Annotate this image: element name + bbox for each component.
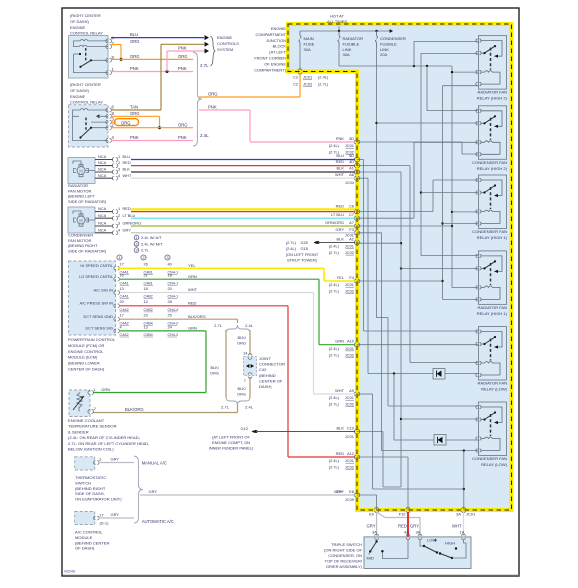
wire: R5 pin4 through diode D1 — [367, 178, 369, 373]
wire: radiator fan motor pin 1 BLU — [95, 159, 113, 161]
svg-text:GRY: GRY — [336, 227, 345, 232]
svg-text:GRN: GRN — [188, 274, 197, 279]
svg-text:ENGINE: ENGINE — [271, 26, 286, 31]
wire: ORG pin8 to brace — [111, 58, 193, 60]
node: junction block entry E8 (GRY) — [354, 493, 360, 497]
svg-text:JC09: JC09 — [345, 497, 354, 502]
wire: R1 pin2 down — [421, 52, 479, 54]
svg-text:A/C SIG IN: A/C SIG IN — [94, 287, 114, 292]
svg-text:(2.4L): (2.4L) — [318, 75, 329, 80]
svg-text:ECT SENS SIG: ECT SENS SIG — [86, 326, 114, 331]
svg-text:17: 17 — [120, 313, 124, 318]
svg-text:RED: RED — [188, 300, 197, 305]
svg-text:CENTER OF: CENTER OF — [259, 378, 283, 383]
motor: condenser fan motor — [68, 207, 95, 233]
svg-text:ALL TIMES: ALL TIMES — [327, 19, 347, 24]
svg-text:2: 2 — [118, 160, 120, 165]
svg-text:F3: F3 — [349, 227, 354, 232]
connector C2 JC01/JC02 — [298, 69, 302, 75]
svg-text:13: 13 — [120, 286, 124, 291]
svg-text:MID: MID — [367, 556, 374, 561]
svg-text:YEL: YEL — [188, 263, 196, 268]
svg-text:JC01: JC01 — [345, 346, 354, 351]
ground G20/G15 — [314, 241, 317, 244]
relay: CONDENSER FAN RELAY (HIGH 1) — [472, 175, 508, 240]
svg-text:25: 25 — [168, 313, 172, 318]
wire: PNK riser to arrow — [166, 51, 168, 72]
svg-text:A10: A10 — [347, 339, 355, 344]
svg-text:(2.4L): (2.4L) — [329, 458, 340, 463]
svg-text:BLU: BLU — [123, 154, 131, 159]
svg-text:LINK: LINK — [380, 47, 389, 52]
wire: ORG pin3 highlighted — [111, 121, 116, 123]
wire: GRY merged to E8 — [140, 494, 355, 496]
svg-text:JC01: JC01 — [345, 244, 354, 249]
wire: R3 pin2 — [421, 192, 479, 194]
svg-text:SWITCH: SWITCH — [75, 480, 91, 485]
svg-text:2.4L: 2.4L — [245, 323, 254, 328]
wire: condenser feed jog — [377, 317, 389, 319]
svg-text:2.7L: 2.7L — [200, 63, 209, 68]
svg-text:3: 3 — [118, 221, 120, 226]
node: relay output merge brace — [193, 52, 202, 146]
svg-text:(BEHIND LOWER: (BEHIND LOWER — [68, 361, 100, 366]
svg-text:2: 2 — [94, 406, 96, 411]
node: bottom exit 3A JC01 (WHT) — [462, 507, 466, 513]
svg-text:ENGINE COOLANT: ENGINE COOLANT — [68, 418, 105, 423]
svg-text:CONDENSER, ON: CONDENSER, ON — [328, 553, 362, 558]
svg-text:(2.7L): (2.7L) — [329, 352, 340, 357]
svg-text:MODULE (PCM) OR: MODULE (PCM) OR — [68, 343, 104, 348]
wire: R6 pin2 from ground bus — [401, 418, 479, 420]
svg-text:1: 1 — [135, 236, 137, 240]
wire: BLK/ORG 2.7L branch — [225, 330, 227, 398]
ground G12 — [252, 430, 255, 433]
svg-text:RED: RED — [336, 203, 344, 208]
svg-text:CONDENSER: CONDENSER — [68, 233, 93, 238]
svg-text:THERMOSTATIC: THERMOSTATIC — [75, 475, 106, 480]
wire: R3 pin4 — [443, 223, 479, 225]
svg-text:(2.7L): (2.7L) — [318, 82, 329, 87]
wire: RED press sw to A12 — [120, 305, 288, 307]
wire: R2 pin4 — [461, 142, 463, 154]
svg-text:CONTROL RELAY: CONTROL RELAY — [70, 31, 103, 36]
wire: ORG merged to C2 — [199, 96, 300, 98]
svg-text:(BEHIND RIGHT: (BEHIND RIGHT — [75, 486, 106, 491]
wire: WHT exit riser — [463, 451, 465, 510]
wire: ground bus — [400, 172, 402, 487]
wire: PNK pin1 to brace — [111, 71, 193, 73]
svg-text:RADIATOR FAN: RADIATOR FAN — [477, 381, 507, 386]
svg-text:BLU: BLU — [130, 32, 138, 37]
connector: joint connector C42 — [244, 357, 257, 376]
wire: BLK/ORG 2.4L branch — [249, 330, 251, 355]
svg-text:GRN/ORG: GRN/ORG — [123, 221, 142, 226]
svg-text:(2.4L): (2.4L) — [286, 246, 297, 251]
svg-text:21: 21 — [144, 273, 148, 278]
svg-text:F4: F4 — [349, 275, 354, 280]
svg-text:SIDE OF RADIATOR): SIDE OF RADIATOR) — [68, 248, 107, 253]
wire: bus continuation arrow — [390, 29, 393, 33]
svg-text:NCA: NCA — [98, 221, 107, 226]
svg-text:(2.4L: ON REAR OF CYLINDER HEA: (2.4L: ON REAR OF CYLINDER HEAD; — [68, 435, 140, 440]
svg-text:RED: RED — [336, 451, 344, 456]
svg-text:1: 1 — [118, 154, 120, 159]
svg-text:BLK/: BLK/ — [237, 386, 246, 391]
svg-text:CONTROLS: CONTROLS — [217, 41, 239, 46]
svg-text:(ON LEFT FRONT: (ON LEFT FRONT — [286, 252, 319, 257]
svg-text:YEL: YEL — [337, 275, 345, 280]
svg-text:1A: 1A — [460, 530, 465, 535]
svg-text:MANUAL A/C: MANUAL A/C — [142, 460, 167, 465]
wire: GRN lo speed to A10 — [120, 278, 319, 280]
node: junction block entry C6 (RED) — [354, 210, 360, 214]
svg-text:RELAY (HIGH 1): RELAY (HIGH 1) — [477, 235, 508, 240]
svg-text:MODULE: MODULE — [75, 535, 93, 540]
svg-text:C4B2: C4B2 — [144, 295, 153, 299]
svg-text:3D: 3D — [349, 136, 354, 141]
wire: PNK pin4 to brace — [111, 140, 193, 142]
svg-text:BLK/ORG: BLK/ORG — [125, 407, 144, 412]
svg-text:JC02: JC02 — [345, 289, 354, 294]
svg-text:(2.7L): (2.7L) — [329, 289, 340, 294]
svg-text:GRY: GRY — [410, 524, 419, 529]
svg-text:16: 16 — [120, 273, 124, 278]
svg-text:ENGINE: ENGINE — [217, 35, 232, 40]
svg-text:C4B4: C4B4 — [144, 333, 153, 337]
svg-text:FAN MOTOR: FAN MOTOR — [68, 238, 91, 243]
svg-text:JC01: JC01 — [466, 512, 475, 517]
svg-text:JC02: JC02 — [345, 465, 354, 470]
svg-text:(D-1): (D-1) — [100, 521, 110, 526]
svg-text:3: 3 — [135, 249, 137, 253]
node: junction block entry 3D (PNK) — [354, 140, 360, 144]
svg-text:(BEHIND RIGHT: (BEHIND RIGHT — [68, 243, 98, 248]
svg-text:2: 2 — [99, 457, 101, 462]
svg-text:08546: 08546 — [64, 569, 76, 574]
svg-text:C4A1: C4A1 — [120, 281, 129, 285]
wire: condenser fan motor pin 1 RED — [95, 211, 113, 213]
svg-text:2.4L: 2.4L — [200, 133, 209, 138]
svg-text:4A: 4A — [404, 530, 409, 535]
svg-text:JC01: JC01 — [345, 434, 354, 439]
svg-text:BLK: BLK — [337, 166, 345, 171]
svg-text:ORG: ORG — [210, 371, 219, 376]
wire: YEL hi speed to F4 — [118, 267, 324, 269]
svg-text:14: 14 — [243, 351, 248, 356]
wire: RED drop to 4A — [407, 512, 409, 537]
svg-text:RED: RED — [123, 206, 131, 211]
wire: BLK/ORG to ECT sensor — [237, 404, 239, 413]
svg-text:CONDENSER: CONDENSER — [380, 36, 406, 41]
wire: R3 pin1 — [432, 180, 434, 212]
svg-text:A1: A1 — [349, 166, 354, 171]
svg-text:CN4-1: CN4-1 — [168, 281, 179, 285]
svg-text:PNK: PNK — [178, 66, 187, 71]
svg-text:NCA: NCA — [98, 227, 107, 232]
svg-text:CONTROL RELAY: CONTROL RELAY — [70, 100, 103, 105]
svg-text:2: 2 — [135, 242, 137, 246]
node: junction block entry A10 (GRN) — [354, 343, 360, 347]
wire: radiator fan motor pin 4 WHT — [95, 177, 113, 179]
wire: R5 pin2 — [357, 344, 479, 346]
wire: R5 pin3 — [409, 166, 411, 363]
svg-text:3A: 3A — [456, 512, 461, 517]
svg-text:1: 1 — [118, 256, 120, 260]
module: powertrain control module (PCM) — [69, 261, 116, 335]
svg-text:12: 12 — [144, 299, 148, 304]
svg-text:30A: 30A — [343, 52, 351, 57]
svg-text:FUSIBLE: FUSIBLE — [343, 41, 360, 46]
svg-text:ON EVAPORATOR UNIT): ON EVAPORATOR UNIT) — [75, 497, 122, 502]
svg-text:WHT: WHT — [335, 388, 345, 393]
wire: main fuse to C2 — [299, 47, 301, 70]
svg-text:2.4L W/ M/T: 2.4L W/ M/T — [141, 241, 163, 246]
node: junction block entry C10 (BLK) — [354, 430, 360, 434]
svg-text:C7: C7 — [349, 212, 354, 217]
svg-text:BELOW IGNITION COIL): BELOW IGNITION COIL) — [68, 447, 114, 452]
node: junction block entry A2 (BLK) — [354, 241, 360, 245]
node: engine split brace top — [226, 325, 250, 333]
wire: R4 pin4 — [443, 299, 479, 301]
wire: radiator link feed — [338, 47, 340, 66]
svg-text:RELAY (HIGH 2): RELAY (HIGH 2) — [477, 96, 508, 101]
svg-text:JC02: JC02 — [345, 250, 354, 255]
wire: gray exit — [376, 495, 378, 510]
svg-text:JC01: JC01 — [303, 75, 312, 80]
svg-text:LT BLU: LT BLU — [123, 213, 136, 218]
svg-text:M: M — [79, 168, 83, 173]
svg-text:13: 13 — [144, 324, 148, 329]
svg-text:RADIATOR: RADIATOR — [343, 36, 364, 41]
svg-text:NCA: NCA — [98, 213, 107, 218]
svg-text:NCA: NCA — [98, 160, 107, 165]
wire: R3 pin3 — [452, 211, 479, 213]
node: junction block entry 4D (RED) — [354, 164, 360, 168]
svg-text:2.4L W/ A/T: 2.4L W/ A/T — [141, 235, 162, 240]
svg-text:A9: A9 — [349, 388, 354, 393]
svg-text:2.7L: 2.7L — [141, 248, 150, 253]
svg-text:BLK/: BLK/ — [210, 365, 219, 370]
diode D1 (radiator fan low) — [433, 369, 445, 380]
svg-text:ORG: ORG — [178, 122, 188, 127]
svg-text:ENGINE CONTROL: ENGINE CONTROL — [68, 349, 104, 354]
svg-text:JUNCTION: JUNCTION — [266, 38, 286, 43]
svg-text:C42: C42 — [259, 367, 267, 372]
wire: condenser link feed — [376, 47, 378, 318]
svg-text:ENGINE COMPT, ON: ENGINE COMPT, ON — [212, 440, 250, 445]
svg-text:(AT LEFT FRONT OF: (AT LEFT FRONT OF — [212, 435, 250, 440]
node: AC merge brace — [134, 456, 143, 523]
node: junction block entry 5D (BLU) — [354, 158, 360, 162]
svg-text:ORG: ORG — [208, 92, 218, 97]
node: junction block entry A1 (BLK) — [354, 170, 360, 174]
node: junction block entry A12 (RED) — [354, 455, 360, 459]
svg-text:RADIATOR: RADIATOR — [68, 183, 88, 188]
engine compartment junction block body — [288, 24, 512, 510]
svg-text:2.4L: 2.4L — [245, 405, 254, 410]
svg-text:WHT: WHT — [452, 524, 462, 529]
svg-text:17: 17 — [99, 513, 103, 518]
svg-text:GRN: GRN — [188, 326, 197, 331]
wire: red exit — [407, 457, 409, 510]
svg-text:PNK: PNK — [178, 46, 187, 51]
svg-text:SYSTEM: SYSTEM — [217, 47, 233, 52]
svg-text:CN4-2: CN4-2 — [168, 333, 179, 337]
wire: TAN pin6 riser to arrow — [111, 109, 161, 111]
svg-text:G20: G20 — [301, 240, 309, 245]
svg-text:LO SPEED CNTRL: LO SPEED CNTRL — [79, 274, 114, 279]
svg-text:PNK: PNK — [178, 135, 187, 140]
svg-text:3: 3 — [118, 167, 120, 172]
wire: GRY manual ac — [99, 462, 134, 464]
svg-text:ORG: ORG — [237, 392, 246, 397]
svg-text:MODULE (ECM): MODULE (ECM) — [68, 355, 98, 360]
wire: PNK merged to entry 3D — [199, 109, 250, 111]
svg-text:2: 2 — [142, 256, 144, 260]
svg-text:JC01: JC01 — [345, 458, 354, 463]
wire: ORG jumper pin2-pin8 — [111, 44, 121, 46]
wire: R2 pin1 — [426, 66, 428, 111]
svg-text:3: 3 — [166, 256, 168, 260]
svg-text:RELAY (HIGH 2): RELAY (HIGH 2) — [477, 166, 508, 171]
svg-text:COMPARTMENT: COMPARTMENT — [256, 32, 287, 37]
wire: condenser fan motor pin 3 GRN/ORG — [95, 225, 113, 227]
svg-text:A12: A12 — [347, 451, 354, 456]
node: bottom exit F10 (RED) — [406, 507, 410, 513]
svg-text:1: 1 — [118, 206, 120, 211]
svg-text:CONNECTOR: CONNECTOR — [259, 362, 285, 367]
relay: RADIATOR FAN RELAY (HIGH 2) — [476, 36, 508, 101]
svg-text:TAN: TAN — [130, 105, 138, 110]
svg-text:CENTER OF DASH): CENTER OF DASH) — [68, 367, 105, 372]
svg-text:CONDENSER FAN: CONDENSER FAN — [472, 160, 507, 165]
svg-text:GRN/ORG: GRN/ORG — [325, 220, 344, 225]
svg-text:A/C CONTROL: A/C CONTROL — [75, 530, 103, 535]
svg-text:23: 23 — [144, 313, 148, 318]
node: junction block entry F4 (YEL) — [354, 279, 360, 283]
svg-text:COMPARTMENT): COMPARTMENT) — [254, 67, 286, 72]
svg-text:C4A2: C4A2 — [120, 333, 129, 337]
svg-text:2.7L: 2.7L — [214, 323, 223, 328]
svg-text:ORG: ORG — [130, 111, 140, 116]
label: PCM connector column headers — [117, 255, 122, 260]
svg-text:C4A1: C4A1 — [120, 295, 129, 299]
switch: MID contact — [375, 540, 377, 542]
svg-text:C2: C2 — [293, 82, 298, 87]
svg-text:INNER FENDER PANEL): INNER FENDER PANEL) — [209, 446, 254, 451]
svg-text:GRY: GRY — [123, 227, 132, 232]
svg-text:BLOCK: BLOCK — [273, 44, 287, 49]
fuse: CONDENSER FUSIBLE LINK 20A — [375, 31, 377, 47]
svg-text:HI SPEED CNTRL: HI SPEED CNTRL — [80, 263, 113, 268]
svg-text:PNK: PNK — [130, 135, 139, 140]
svg-text:RELAY (HIGH 1): RELAY (HIGH 1) — [477, 311, 508, 316]
svg-text:(2.7L): (2.7L) — [286, 240, 297, 245]
wire: R4 pin1 — [421, 255, 479, 257]
wire: GRY automatic ac — [99, 517, 134, 519]
svg-text:G12: G12 — [241, 426, 248, 431]
wire: WHT drop to 1A — [463, 512, 465, 537]
svg-text:OF ENGINE: OF ENGINE — [264, 61, 286, 66]
svg-text:RADIATOR FAN: RADIATOR FAN — [477, 90, 507, 95]
svg-text:NCA: NCA — [98, 206, 107, 211]
svg-text:(2.7L): (2.7L) — [329, 250, 340, 255]
wire: ground G12 tie — [382, 432, 384, 488]
wire: riser to R1 pin1 — [413, 42, 415, 67]
motor: radiator fan motor — [68, 158, 95, 184]
node: junction block entry C7 (LT BLU) — [354, 216, 360, 220]
svg-text:JOINT: JOINT — [259, 356, 271, 361]
wire: radiator fan motor pin 3 BLK — [95, 171, 113, 173]
svg-text:(2.4L): (2.4L) — [329, 282, 340, 287]
svg-text:(2.4L): (2.4L) — [329, 395, 340, 400]
svg-text:3A: 3A — [372, 530, 377, 535]
svg-text:(2.7L): (2.7L) — [329, 402, 340, 407]
svg-text:AUTOMATIC A/C: AUTOMATIC A/C — [142, 519, 174, 524]
svg-text:JC02: JC02 — [303, 82, 312, 87]
svg-text:(2.4L): (2.4L) — [329, 346, 340, 351]
svg-text:FRONT CORNER: FRONT CORNER — [254, 56, 286, 61]
svg-text:C4A2: C4A2 — [120, 308, 129, 312]
svg-text:TEMPERATURE SENSOR: TEMPERATURE SENSOR — [68, 424, 117, 429]
svg-text:(BEHIND CENTER: (BEHIND CENTER — [75, 540, 109, 545]
node: junction block entry A7 (GRN/ORG) — [354, 224, 360, 228]
svg-text:ORG: ORG — [178, 54, 188, 59]
svg-text:GRY: GRY — [111, 512, 120, 517]
svg-text:JC02: JC02 — [345, 402, 354, 407]
svg-text:CN4-1: CN4-1 — [168, 295, 179, 299]
svg-text:ORG: ORG — [130, 39, 140, 44]
svg-text:NCA: NCA — [98, 167, 107, 172]
svg-text:OF DASH): OF DASH) — [75, 546, 95, 551]
svg-text:OF DASH): OF DASH) — [70, 88, 90, 93]
wire: radiator fan motor pin 2 RED — [95, 165, 113, 167]
svg-text:(ON RIGHT SIDE OF: (ON RIGHT SIDE OF — [324, 548, 362, 553]
node: engine controls system arrows — [205, 35, 210, 40]
svg-text:(RIGHT CENTER: (RIGHT CENTER — [70, 13, 101, 18]
svg-text:(RIGHT CENTER: (RIGHT CENTER — [70, 82, 101, 87]
svg-text:BLK: BLK — [337, 426, 345, 431]
node: junction block entry A6 (WHT) — [354, 176, 360, 180]
node: junction block entry A9 (WHT) — [354, 392, 360, 396]
svg-text:GRY: GRY — [149, 489, 158, 494]
svg-text:E8: E8 — [349, 489, 355, 494]
svg-text:5D: 5D — [349, 153, 354, 158]
svg-text:(2.4L): (2.4L) — [329, 244, 340, 249]
sensor: engine coolant temperature sensor — [69, 390, 90, 417]
svg-text:(AT LEFT: (AT LEFT — [269, 50, 286, 55]
wire: fuse feed bus — [300, 30, 390, 32]
svg-text:30A: 30A — [304, 47, 312, 52]
svg-text:RADIATOR FAN: RADIATOR FAN — [477, 305, 507, 310]
svg-text:SIDE OF DASH,: SIDE OF DASH, — [75, 491, 105, 496]
svg-text:STRUT TOWER): STRUT TOWER) — [287, 258, 318, 263]
svg-text:POWERTRAIN CONTROL: POWERTRAIN CONTROL — [68, 337, 116, 342]
node: engine merge brace bottom — [226, 397, 250, 405]
module: A/C control module — [75, 512, 95, 525]
svg-text:CONDENSER FAN: CONDENSER FAN — [472, 456, 507, 461]
wire: condenser fan motor pin 4 GRY — [95, 232, 113, 234]
svg-text:CN4-4: CN4-4 — [168, 308, 179, 312]
wire: R5 pin1 — [363, 160, 365, 332]
svg-text:26: 26 — [144, 262, 148, 267]
diode D2 (condenser fan low) — [434, 435, 446, 446]
wire: R2 pin2 — [377, 122, 479, 124]
svg-text:HIGH: HIGH — [445, 541, 455, 546]
relay: CONDENSER FAN RELAY (LOW) — [472, 402, 508, 467]
node: bottom exit E9 (GRY) — [375, 507, 379, 513]
